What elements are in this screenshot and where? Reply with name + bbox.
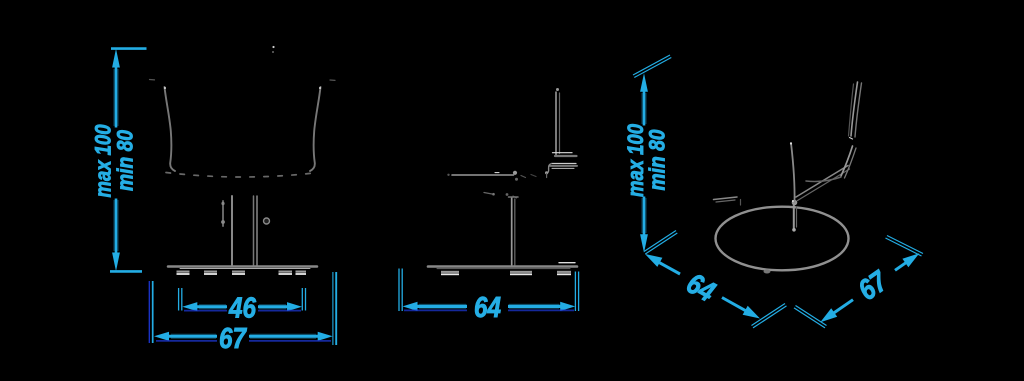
svg-text:46: 46 [228,293,257,325]
svg-text:min 80: min 80 [645,129,670,190]
svg-text:67: 67 [219,323,248,355]
svg-text:min 80: min 80 [113,130,138,191]
svg-text:64: 64 [474,292,501,324]
